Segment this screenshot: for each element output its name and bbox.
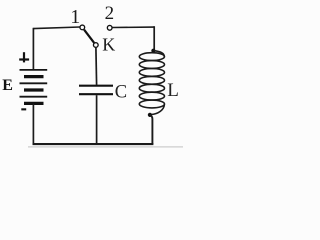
svg-text:1: 1 bbox=[70, 6, 80, 28]
svg-text:K: K bbox=[102, 35, 115, 55]
plus sign label of battery bbox=[19, 52, 29, 62]
inductor L bottom junction dot bbox=[148, 113, 152, 117]
battery E plate 5 thin long bbox=[20, 96, 48, 98]
inductor L top connector arc bbox=[153, 51, 164, 57]
battery E plate 4 thick short bbox=[24, 88, 44, 91]
wire left vertical from top corner down to battery + plate bbox=[32, 28, 34, 70]
minus sign label of battery bbox=[21, 108, 26, 110]
battery E plate 3 thin long bbox=[20, 82, 48, 84]
battery E plate 1 thin long (+) bbox=[20, 69, 48, 71]
wire bottom horizontal bbox=[33, 143, 154, 145]
inductor L coil turn 3 bbox=[139, 69, 164, 77]
svg-text:2: 2 bbox=[105, 3, 115, 24]
capacitor C bottom plate bbox=[79, 93, 113, 95]
switch contact 2 circle bbox=[107, 25, 112, 30]
wire left vertical from battery - plate down to bottom wire bbox=[32, 104, 34, 145]
battery E plate 6 thick short (-) bbox=[24, 102, 44, 105]
wire right vertical down to inductor top bbox=[153, 26, 155, 49]
faint scan shadow line at bottom bbox=[28, 146, 183, 148]
inductor L bottom partial turn to exit dot bbox=[152, 105, 165, 115]
inductor L coil turn 6 bbox=[139, 92, 164, 100]
svg-text:C: C bbox=[115, 83, 127, 103]
wire from capacitor bottom plate down to bottom wire bbox=[96, 95, 98, 144]
switch contact 1 circle bbox=[80, 25, 85, 30]
inductor L coil turn 1 bbox=[139, 53, 164, 61]
wire top-left horizontal from battery branch corner to switch contact 1 bbox=[33, 27, 80, 29]
wire from switch pivot down to capacitor top plate bbox=[95, 47, 98, 85]
svg-text:L: L bbox=[167, 80, 179, 101]
inductor L coil turn 7 bbox=[139, 100, 164, 108]
switch K arm from contact 1 to pivot bbox=[84, 30, 94, 43]
inductor L top junction dot bbox=[151, 49, 155, 53]
wire top-right horizontal from switch contact 2 to right branch corner bbox=[112, 26, 154, 28]
inductor L coil turn 5 bbox=[139, 84, 164, 92]
inductor L coil turn 4 bbox=[139, 76, 164, 84]
switch K pivot circle bbox=[93, 43, 98, 48]
svg-text:E: E bbox=[2, 77, 13, 94]
battery E plate 2 thick short bbox=[24, 75, 44, 78]
wire from inductor bottom dot down to bottom wire bbox=[150, 115, 152, 144]
inductor L coil turn 2 bbox=[139, 61, 164, 69]
capacitor C top plate bbox=[79, 85, 113, 87]
